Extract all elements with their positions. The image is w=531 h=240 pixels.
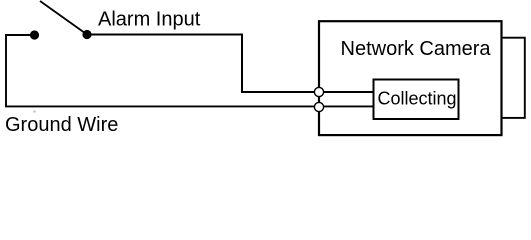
svg-text:Network Camera: Network Camera bbox=[341, 38, 492, 60]
svg-text:Alarm Input: Alarm Input bbox=[98, 9, 201, 31]
svg-text:Collecting: Collecting bbox=[378, 88, 457, 108]
svg-text:Ground Wire: Ground Wire bbox=[5, 114, 118, 136]
